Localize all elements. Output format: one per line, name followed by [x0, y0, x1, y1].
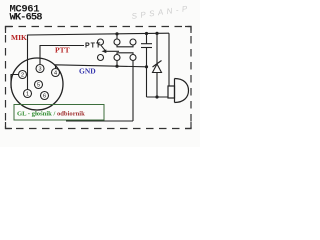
stem bottom-middle to gnd	[116, 61, 118, 67]
svg-text:SPSAN-P: SPSAN-P	[131, 4, 191, 21]
svg-text:WK-658: WK-658	[10, 11, 43, 23]
svg-text:6: 6	[43, 94, 46, 100]
pin 4	[52, 69, 60, 77]
contact bottom-left	[98, 55, 104, 61]
contact bottom-right	[130, 55, 136, 61]
node junction bus-diode	[155, 32, 158, 35]
wire pin3 to PTT switch	[40, 46, 84, 65]
node junction diode-speaker wire	[155, 95, 158, 98]
node junction bus-capacitor	[145, 32, 148, 35]
wire top bus drop to speaker	[168, 33, 170, 86]
svg-text:5: 5	[37, 83, 40, 89]
svg-text:PTT: PTT	[85, 43, 101, 50]
stem bottom-right to GL wire	[132, 61, 134, 122]
svg-text:2: 2	[21, 73, 24, 79]
contact bottom-middle	[114, 55, 120, 61]
wire pin1 to MIK top bus	[28, 33, 170, 89]
capacitor C1	[141, 34, 152, 98]
contact top-middle	[114, 39, 120, 45]
pin 2	[19, 71, 27, 79]
actuator link	[104, 50, 119, 52]
svg-text:GL - głośnik / odbiornik: GL - głośnik / odbiornik	[17, 111, 85, 118]
pin 1	[24, 90, 32, 98]
contact top-left	[98, 39, 104, 45]
node junction bus-switch	[115, 32, 118, 35]
node junction gnd-capacitor	[145, 65, 148, 68]
svg-text:1: 1	[26, 92, 29, 98]
PTT switch S1	[98, 34, 137, 121]
title model numbers	[10, 3, 43, 23]
wire bottom to speaker	[147, 96, 169, 98]
pin 5	[35, 81, 43, 89]
pin 3	[36, 65, 44, 73]
svg-text:4: 4	[54, 71, 57, 77]
actuator arrow	[101, 45, 105, 50]
dashed border frame	[6, 27, 192, 129]
bridge top row	[117, 45, 133, 47]
wire pin2 to shell	[11, 75, 19, 89]
mic connector shell (big circle)	[11, 58, 63, 110]
contact top-right	[130, 39, 136, 45]
zener diode D1	[153, 33, 162, 97]
wire switch to GL label	[66, 120, 133, 122]
svg-text:3: 3	[38, 67, 41, 73]
wire pin4 GND run	[56, 65, 147, 69]
svg-text:PTT: PTT	[55, 46, 70, 55]
node junction gnd-switch	[115, 65, 118, 68]
stem bus to top-middle	[116, 34, 118, 39]
svg-text:GND: GND	[79, 67, 96, 76]
pin 6	[41, 92, 49, 100]
bridge bottom row	[117, 53, 133, 55]
svg-text:MIK: MIK	[11, 33, 27, 42]
label box GL	[14, 105, 104, 121]
speaker / earphone	[168, 79, 189, 103]
